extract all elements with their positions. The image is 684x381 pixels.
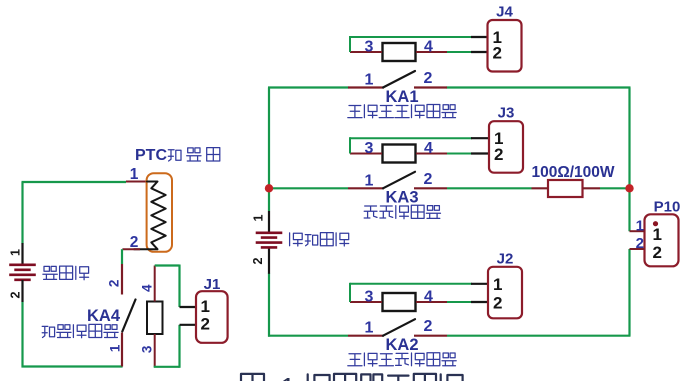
svg-text:KA4: KA4: [87, 307, 121, 325]
svg-text:4: 4: [424, 140, 433, 157]
svg-text:2: 2: [424, 171, 433, 188]
svg-text:2: 2: [493, 44, 502, 63]
svg-text:4: 4: [140, 284, 155, 292]
svg-text:J3: J3: [498, 105, 515, 122]
svg-text:2: 2: [424, 70, 433, 87]
svg-text:4: 4: [424, 289, 433, 306]
svg-text:1: 1: [636, 218, 644, 235]
svg-text:3: 3: [365, 140, 374, 157]
svg-text:1: 1: [365, 320, 374, 337]
svg-text:2: 2: [494, 145, 503, 164]
svg-text:2: 2: [251, 257, 265, 264]
svg-text:KA3: KA3: [385, 189, 418, 207]
svg-text:2: 2: [653, 243, 662, 262]
svg-text:2: 2: [201, 315, 210, 334]
svg-text:2: 2: [636, 235, 644, 252]
svg-text:1: 1: [130, 166, 139, 183]
svg-text:4: 4: [424, 39, 433, 56]
svg-text:3: 3: [140, 345, 155, 353]
svg-text:1: 1: [493, 275, 502, 294]
svg-text:1: 1: [252, 214, 266, 221]
svg-text:J4: J4: [496, 4, 513, 21]
svg-text:100Ω/100W: 100Ω/100W: [531, 164, 614, 181]
svg-text:P10: P10: [654, 199, 681, 216]
svg-text:J2: J2: [497, 250, 514, 267]
svg-text:1: 1: [9, 249, 23, 256]
svg-text:2: 2: [493, 294, 502, 313]
svg-text:1: 1: [108, 344, 123, 352]
svg-text:PTC: PTC: [135, 147, 167, 164]
svg-text:3: 3: [365, 289, 374, 306]
svg-text:2: 2: [130, 234, 139, 251]
svg-text:KA1: KA1: [385, 88, 418, 106]
svg-text:1: 1: [365, 72, 374, 89]
svg-text:2: 2: [9, 291, 23, 298]
svg-text:2: 2: [107, 280, 122, 288]
svg-text:J1: J1: [204, 276, 221, 293]
svg-text:KA2: KA2: [385, 336, 418, 354]
svg-text:1: 1: [365, 172, 374, 189]
svg-text:1: 1: [201, 297, 210, 316]
svg-text:1: 1: [653, 225, 662, 244]
svg-text:1: 1: [280, 372, 296, 381]
svg-text:2: 2: [424, 318, 433, 335]
svg-text:3: 3: [365, 39, 374, 56]
